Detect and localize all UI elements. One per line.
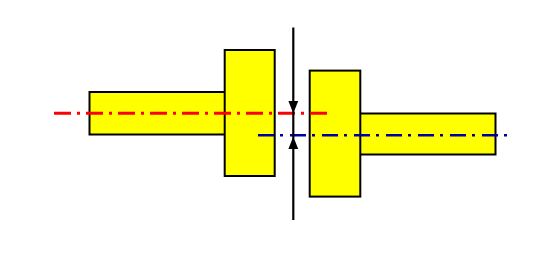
right shaft bbox=[358, 114, 496, 155]
up arrowhead (to blue centerline) bbox=[288, 137, 298, 150]
left shaft bbox=[90, 92, 226, 135]
vertical dimension line bbox=[292, 28, 294, 221]
left coupling hub bbox=[225, 50, 275, 176]
blue centerline (right shaft axis) bbox=[258, 134, 510, 137]
down arrowhead (to red centerline) bbox=[288, 101, 298, 114]
red centerline (left shaft axis) bbox=[54, 112, 327, 115]
right coupling hub bbox=[310, 71, 361, 197]
